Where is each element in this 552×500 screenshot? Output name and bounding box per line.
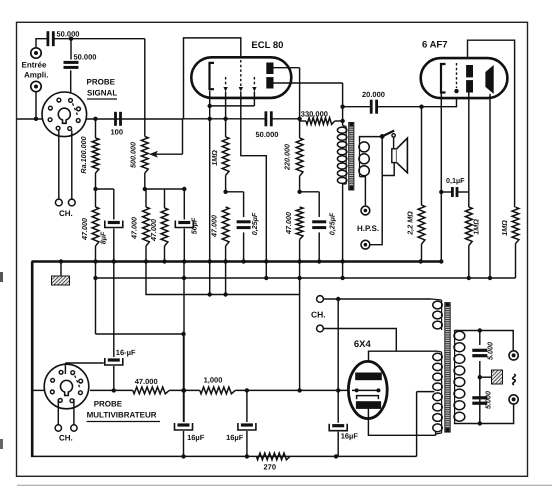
- resistor Ra.100.000: [95, 119, 97, 138]
- page edge smudge left lower: [0, 439, 3, 449]
- speaker return wire: [382, 163, 394, 176]
- switch contact: [392, 134, 395, 137]
- wire secondary top to switch node: [360, 137, 383, 141]
- wire 47k to 1k: [169, 389, 200, 391]
- svg-text:0,1µF: 0,1µF: [446, 176, 465, 185]
- svg-text:50.000: 50.000: [57, 30, 80, 39]
- 6AF7 anode top wire: [468, 40, 515, 207]
- svg-text:50.000: 50.000: [74, 53, 97, 62]
- wire input cap left to terminal: [36, 39, 48, 48]
- node 330k right on transformer column: [340, 119, 344, 123]
- wire input cap right to pot column: [53, 38, 145, 40]
- node junction cap2 top: [69, 37, 73, 41]
- probe signal tube socket: [42, 92, 87, 137]
- capacitor 50.000 coupling mid: [264, 111, 267, 126]
- wire x209 bus to row B: [209, 262, 211, 295]
- wire cap2 to socket top pin: [70, 70, 72, 98]
- wire junction to cap2: [70, 39, 72, 60]
- wire switch contact to speaker: [393, 137, 395, 149]
- wire 1k to 6X4: [235, 389, 350, 391]
- 6X4 plate1 riser: [369, 351, 438, 372]
- wire y334 link: [96, 333, 184, 335]
- capacitor 16uF first: [113, 262, 115, 358]
- wire junction to 0.25uF first: [226, 191, 244, 193]
- svg-text:50µF: 50µF: [190, 217, 199, 234]
- capacitor 0.1uF: [451, 187, 454, 197]
- resistor 500.000: [141, 137, 148, 174]
- wire cathode to grid3 link: [210, 105, 255, 107]
- chassis ground symbol right: [492, 370, 503, 384]
- svg-text:PROBE: PROBE: [94, 400, 123, 409]
- wire HPS bottom to switch node: [370, 136, 382, 244]
- capacitor 5.000 first: [479, 331, 481, 346]
- svg-text:270: 270: [264, 463, 277, 472]
- svg-text:47.000: 47.000: [135, 377, 158, 386]
- capacitor 50.000 input coupling: [47, 31, 50, 46]
- svg-text:20.000: 20.000: [362, 90, 385, 99]
- svg-text:Ra.100.000: Ra.100.000: [79, 136, 88, 173]
- wire 0.1uF left: [441, 191, 452, 193]
- svg-text:47.000: 47.000: [284, 212, 293, 235]
- svg-text:CH.: CH.: [311, 310, 326, 320]
- ECL80 screen lead down and jog: [241, 92, 266, 279]
- svg-text:1MΩ: 1MΩ: [210, 150, 219, 166]
- svg-text:2,2 MΩ: 2,2 MΩ: [406, 211, 415, 236]
- node 1M bottom junction: [223, 190, 227, 194]
- 6X4 winding bottom hook: [435, 431, 437, 435]
- svg-text:16µF: 16µF: [341, 432, 359, 441]
- chassis ground stem: [60, 263, 62, 276]
- wire 20.000 left: [343, 106, 372, 108]
- node switch: [380, 134, 385, 139]
- capacitor 16uF fourth: [337, 299, 339, 423]
- tube ECL80 envelope: [191, 57, 291, 98]
- bottom return row: [32, 455, 416, 457]
- svg-text:50.000: 50.000: [256, 130, 279, 139]
- terminal CH multivib right: [71, 425, 77, 431]
- screen supply line over ECL80: [184, 38, 241, 119]
- capacitor 100 pF: [114, 112, 117, 126]
- resistor 1M ohm grid leak: [222, 137, 229, 176]
- capacitor 0.25uF first: [243, 192, 245, 217]
- wire secondary bottom out: [455, 404, 514, 424]
- wire secondary top out: [455, 330, 514, 350]
- resistor 1M ohm right: [512, 207, 519, 243]
- row A dots: [182, 276, 186, 280]
- resistor 47.000 first: [95, 189, 97, 207]
- wire junction row y189: [145, 188, 185, 190]
- bus junction dots: [59, 259, 63, 263]
- node cathode link: [208, 104, 212, 108]
- ECL80 cathode bracket: [210, 63, 215, 89]
- svg-text:8µF: 8µF: [99, 231, 108, 244]
- heater leads multivib socket: [57, 399, 59, 425]
- page edge smudge left upper: [0, 272, 3, 282]
- multivibrator tube socket: [44, 364, 89, 409]
- 6X4 heater staple: [357, 396, 379, 400]
- node 220k bottom junction: [297, 190, 301, 194]
- 6X4 anode plate bottom: [356, 401, 381, 409]
- wire secondary bottom to HPS1: [360, 177, 366, 206]
- wire 0.1uF right: [457, 191, 469, 193]
- underline signal: [87, 98, 117, 100]
- capacitor 8uF electrolytic: [113, 189, 115, 220]
- terminal CH multivib left: [55, 425, 61, 431]
- 6X4 plate2 lead down: [368, 408, 435, 435]
- heater lead left of signal socket: [58, 131, 60, 200]
- wire main signal bus left: [17, 118, 43, 120]
- wire primary bottom to bus: [342, 184, 344, 278]
- resistor 47.000 third: [164, 189, 166, 208]
- resistor 47.000 fourth: [222, 207, 229, 246]
- 6X4 centre tap column: [416, 392, 418, 457]
- wiper arrow of potentiometer: [149, 151, 158, 158]
- node pot bottom junction: [143, 187, 147, 191]
- tube 6X4 envelope: [348, 361, 387, 418]
- capacitor 16uF second: [183, 334, 185, 422]
- speaker: [392, 149, 397, 163]
- resistor 1M ohm left: [465, 207, 472, 246]
- 6AF7 grid dashed: [456, 63, 458, 88]
- capacitor 50.000 grid cap C2: [64, 61, 79, 64]
- row B feed: [146, 262, 300, 295]
- resistor 270: [256, 453, 290, 460]
- wire 20.000 right to 6AF7 grid: [377, 93, 457, 107]
- node at 220k column: [297, 117, 301, 121]
- wire 50.000 cap to 220k top: [271, 118, 299, 120]
- resistor 1.000: [200, 387, 235, 394]
- wire Ra bottom to 8uF: [96, 188, 114, 190]
- node cathode main wire: [208, 117, 212, 121]
- wire junction to 0.25uF second: [300, 191, 320, 193]
- resistor 2.2M ohm: [421, 107, 423, 205]
- wire wiper riser to grid wire: [182, 119, 184, 154]
- node Ra bottom junction: [93, 187, 97, 191]
- svg-text:100: 100: [111, 128, 124, 137]
- heater lead right of signal socket: [71, 131, 73, 200]
- output transformer secondary coil: [359, 141, 361, 177]
- output transformer primary coil: [345, 127, 347, 185]
- chassis ground symbol: [52, 276, 70, 285]
- wire CH1 to heater winding: [323, 298, 431, 300]
- svg-text:MULTIVIBRATEUR: MULTIVIBRATEUR: [87, 411, 157, 420]
- bus left leg down: [31, 262, 34, 458]
- 6AF7 grid dot: [454, 89, 458, 93]
- output transformer core: [349, 123, 354, 191]
- svg-text:ECL 80: ECL 80: [251, 40, 283, 51]
- svg-text:47.000: 47.000: [80, 218, 89, 241]
- 6AF7 cathode bracket: [441, 64, 446, 93]
- terminal CH left: [55, 199, 62, 206]
- vertical x184 bus to bottom row: [183, 262, 185, 423]
- svg-text:0,25µF: 0,25µF: [250, 212, 259, 235]
- svg-text:47.000: 47.000: [149, 219, 158, 242]
- svg-text:220.000: 220.000: [283, 144, 292, 171]
- 6AF7 cathode lead down: [440, 93, 442, 262]
- tube 6AF7 envelope: [421, 58, 508, 98]
- capacitor 5.000 second: [472, 396, 487, 399]
- node row B x225: [223, 292, 227, 296]
- resistor 47.000 multivib: [133, 387, 169, 394]
- capacitor 20.000: [370, 100, 373, 114]
- terminal HPS top: [361, 206, 370, 215]
- svg-text:SIGNAL: SIGNAL: [87, 89, 117, 98]
- svg-text:CH.: CH.: [59, 434, 73, 443]
- 6AF7 lower anode lead down: [468, 93, 470, 208]
- node grid main wire: [223, 117, 227, 121]
- svg-text:Entrée: Entrée: [22, 61, 47, 70]
- terminal CH right: [68, 199, 75, 206]
- wire wiper to riser: [156, 153, 183, 155]
- svg-text:1MΩ: 1MΩ: [472, 219, 481, 235]
- wire 220k column row B to multivib line: [299, 262, 301, 391]
- terminal HPS bottom: [361, 240, 370, 249]
- terminal Entree Ampli bottom: [31, 81, 41, 91]
- svg-text:0,25µF: 0,25µF: [328, 212, 337, 235]
- terminal Entree Ampli top: [31, 48, 41, 58]
- pentode anode to output transformer column: [342, 83, 344, 126]
- power transformer heater winding top: [441, 300, 443, 330]
- svg-text:H.P.S.: H.P.S.: [357, 224, 379, 233]
- svg-text:16µF: 16µF: [226, 433, 244, 442]
- 6AF7 target screen wedge: [485, 65, 493, 94]
- underline multivibrateur: [87, 421, 160, 423]
- ECL80 grid 3 dashed: [253, 77, 255, 86]
- node ground tap: [478, 375, 482, 379]
- multivib output line: [90, 389, 133, 391]
- wire upper anode out: [274, 67, 300, 69]
- node 0.1uF left: [439, 190, 443, 194]
- svg-text:1,000: 1,000: [204, 376, 223, 385]
- ECL80 grid 1 dashed: [225, 77, 227, 86]
- multivib socket left pin wire: [34, 389, 45, 391]
- wire CH2 jog to winding lower: [323, 329, 396, 352]
- resistor 220.000: [296, 138, 303, 176]
- ECL80 grid 2 dashed centre: [240, 60, 242, 86]
- multivib socket top pin wire: [65, 362, 103, 364]
- row A corner from bus: [95, 262, 97, 335]
- svg-text:330.000: 330.000: [301, 110, 328, 119]
- ECL80 anode plate lower: [266, 77, 273, 88]
- terminal CH mains top: [317, 296, 324, 303]
- 6X4 anode plate top: [355, 373, 382, 381]
- ECL80 anode plate upper: [266, 63, 273, 75]
- node 16uF4 column top: [336, 297, 340, 301]
- wire lower anode out: [274, 82, 343, 84]
- capacitor 50uF electrolytic: [183, 189, 185, 220]
- node Ra top: [93, 117, 97, 121]
- row A ground return: [96, 277, 516, 279]
- label AC tilde: [513, 374, 516, 385]
- HT bus thick: [32, 260, 442, 263]
- ECL80 grid1 lead down: [225, 92, 227, 137]
- svg-text:47.000: 47.000: [210, 215, 219, 238]
- 6AF7 anode plate upper: [466, 65, 473, 77]
- 6AF7 target lead down: [489, 94, 491, 278]
- svg-text:16µF: 16µF: [187, 433, 205, 442]
- svg-text:CH.: CH.: [59, 209, 73, 218]
- terminal output bottom: [509, 395, 518, 404]
- wire x225 bus to row B: [225, 262, 227, 295]
- node 20.000 tap: [340, 105, 344, 109]
- resistor 47.000 second: [145, 189, 147, 207]
- switch blade: [382, 131, 394, 137]
- svg-text:PROBE: PROBE: [87, 78, 116, 87]
- wire to chassis ground right: [480, 376, 492, 378]
- wire grid3 pin down: [253, 92, 255, 106]
- wire grid wire to 50.000 cap: [183, 118, 266, 120]
- wire terminal2 down to main wire: [35, 92, 37, 119]
- page bottom edge line: [17, 484, 552, 486]
- svg-text:500.000: 500.000: [128, 142, 137, 168]
- power transformer secondary coil: [454, 330, 456, 423]
- ECL80 cathode lead down: [209, 91, 211, 262]
- terminal output top: [509, 351, 518, 360]
- svg-text:5.000: 5.000: [486, 342, 495, 360]
- node on main wire: [34, 117, 38, 121]
- capacitor 16uF third: [246, 390, 248, 422]
- power transformer core: [445, 303, 450, 433]
- node 2.2M top: [419, 105, 423, 109]
- 6AF7 anode plate lower: [466, 80, 473, 92]
- svg-text:6 AF7: 6 AF7: [422, 40, 448, 51]
- svg-text:6X4: 6X4: [354, 339, 372, 350]
- power transformer HT winding upper: [441, 352, 443, 392]
- node 50uF top: [182, 187, 186, 191]
- svg-text:47.000: 47.000: [130, 217, 139, 240]
- wire socket to Ra junction: [80, 118, 183, 120]
- svg-text:Ampli.: Ampli.: [24, 71, 48, 80]
- power transformer HT winding lower: [441, 392, 443, 433]
- resistor 330.000 horizontal: [306, 118, 335, 125]
- 6X4 cathode line: [352, 389, 380, 391]
- svg-text:1MΩ: 1MΩ: [500, 220, 509, 236]
- capacitor 0.25uF second: [318, 192, 320, 217]
- svg-text:16-µF: 16-µF: [116, 348, 136, 357]
- ECL80 triode anode column: [299, 68, 301, 138]
- svg-text:5.000: 5.000: [484, 391, 493, 409]
- potentiometer 500.000 column from coupling cap: [144, 39, 146, 137]
- resistor 47.000 fifth: [296, 207, 303, 239]
- terminal CH mains bottom: [317, 325, 324, 332]
